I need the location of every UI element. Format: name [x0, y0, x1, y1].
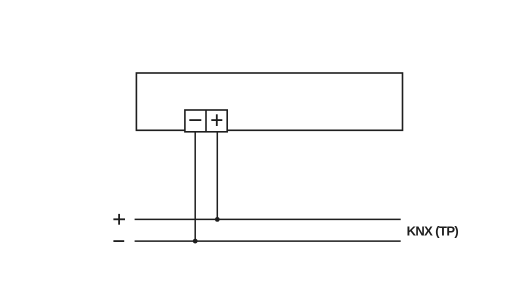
svg-text:KNX (TP): KNX (TP)	[407, 223, 459, 238]
